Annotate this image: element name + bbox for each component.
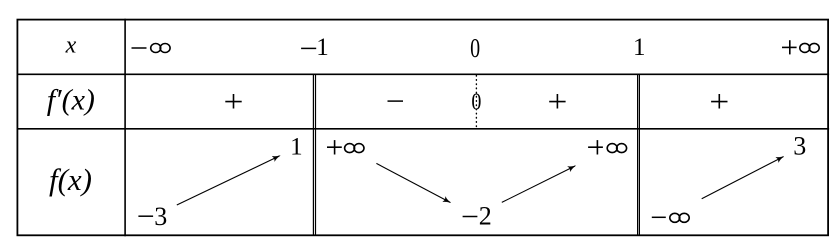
double bar at x=1 <box>638 74 640 235</box>
svg-text:x: x <box>65 32 77 58</box>
value +infinity (top right, cell 2) <box>588 140 627 154</box>
sign - (interval 2a) <box>388 100 404 102</box>
row separator line below f'(x) row <box>17 128 830 130</box>
svg-text:3: 3 <box>793 131 806 160</box>
row separator line below x row <box>17 73 830 75</box>
svg-text:1: 1 <box>316 34 329 61</box>
label -infinity (row 1) <box>132 44 171 53</box>
rising arrow (cell 1) <box>177 156 280 205</box>
value -infinity (bottom left, cell 3) <box>652 213 689 222</box>
rising arrow (cell 2) <box>502 166 575 202</box>
header column separator <box>124 19 126 237</box>
rising arrow (cell 3) <box>702 157 784 199</box>
svg-text:f(x): f(x) <box>49 162 92 197</box>
double bar at x=-1 <box>313 74 315 235</box>
value +infinity (top left, cell 2) <box>327 140 364 154</box>
value -2 (bottom middle, cell 2) <box>463 202 492 231</box>
sign + (interval 3) <box>711 94 727 109</box>
dotted line at x=0 in f'(x) row <box>475 76 477 130</box>
svg-text:f′(x): f′(x) <box>47 83 95 116</box>
svg-text:0: 0 <box>471 89 481 115</box>
sign + (interval 2b) <box>549 94 565 109</box>
value -3 (bottom left, cell 1) <box>138 202 167 231</box>
svg-text:0: 0 <box>470 33 480 63</box>
sign + (interval 1) <box>225 94 241 109</box>
falling arrow (cell 2) <box>376 163 450 202</box>
svg-text:1: 1 <box>633 34 646 61</box>
svg-text:1: 1 <box>290 133 303 160</box>
label +infinity (row 1) <box>782 40 819 54</box>
label -1 (row 1) <box>301 34 329 61</box>
svg-text:2: 2 <box>479 202 492 231</box>
svg-text:3: 3 <box>154 202 167 231</box>
